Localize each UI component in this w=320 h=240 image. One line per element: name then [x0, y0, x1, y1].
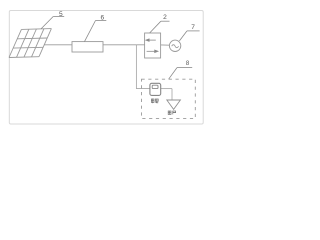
svg-text:6: 6 [100, 15, 104, 22]
svg-text:2: 2 [163, 14, 167, 21]
svg-text:5: 5 [59, 11, 63, 18]
svg-text:7: 7 [191, 24, 195, 31]
